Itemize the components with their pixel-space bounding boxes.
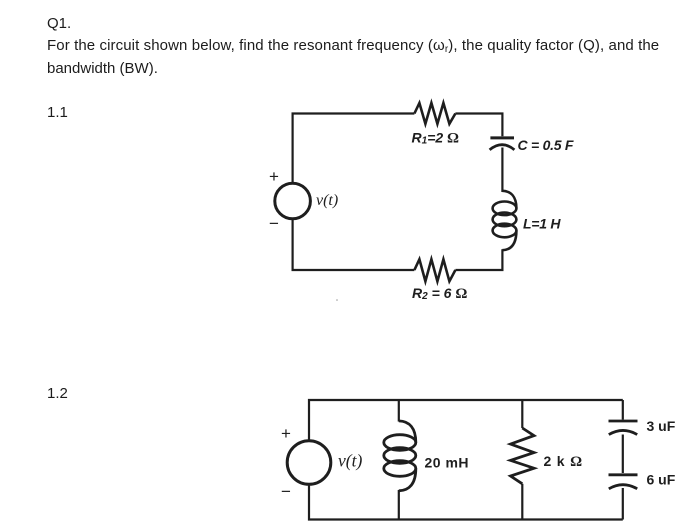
svg-text:C = 0.5 F: C = 0.5 F (518, 137, 574, 153)
capacitor C3 curved plate (609, 485, 637, 489)
svg-text:L=1 H: L=1 H (523, 216, 561, 232)
svg-text:R2 = 6 Ω: R2 = 6 Ω (412, 285, 467, 302)
svg-text:R1=2 Ω: R1=2 Ω (412, 129, 460, 146)
capacitor C1 curved plate (490, 145, 515, 150)
svg-text:3 uF: 3 uF (647, 418, 676, 434)
capacitor C2 top plate (609, 420, 638, 423)
svg-text:v(t): v(t) (316, 192, 338, 209)
wire bottom rail (309, 485, 623, 520)
wire top-left segment (293, 114, 415, 184)
svg-text:20 mH: 20 mH (425, 454, 470, 470)
inductor L1 (493, 191, 517, 250)
resistor R3 (511, 428, 535, 484)
wire top-right segment (455, 114, 502, 137)
wire cap to inductor (501, 148, 503, 193)
problem statement (47, 34, 659, 59)
wire cap branch bottom (622, 488, 624, 520)
capacitor C1 top plate (490, 136, 514, 139)
wire top rail (309, 400, 623, 441)
wire resistor branch bottom (521, 484, 523, 520)
source V1 circle (275, 183, 311, 219)
inductor L2 (384, 421, 416, 491)
svg-text:2 k Ω: 2 k Ω (544, 453, 583, 470)
svg-text:+: + (281, 424, 291, 443)
svg-text:−: − (281, 482, 291, 501)
wire resistor branch top (521, 400, 523, 428)
wire between caps (622, 435, 624, 474)
resistor R1 (414, 103, 455, 124)
source V2 circle (287, 441, 331, 485)
heading Q1. (47, 12, 71, 35)
wire inductor branch top (398, 400, 400, 422)
svg-text:v(t): v(t) (338, 451, 362, 471)
capacitor C3 top plate (609, 473, 638, 476)
stray dot (336, 299, 338, 301)
resistor R2 (414, 259, 455, 281)
capacitor C2 curved plate (609, 430, 637, 434)
wire inductor branch bottom (398, 490, 400, 520)
svg-text:+: + (269, 167, 279, 186)
wire bottom-left segment (293, 219, 415, 270)
svg-text:−: − (269, 214, 279, 233)
wire inductor to bottom-right corner (455, 249, 502, 270)
section label 1.1 (47, 101, 68, 124)
svg-text:6 uF: 6 uF (647, 472, 676, 488)
wire cap branch top (622, 400, 624, 420)
section label 1.2 (47, 382, 68, 405)
